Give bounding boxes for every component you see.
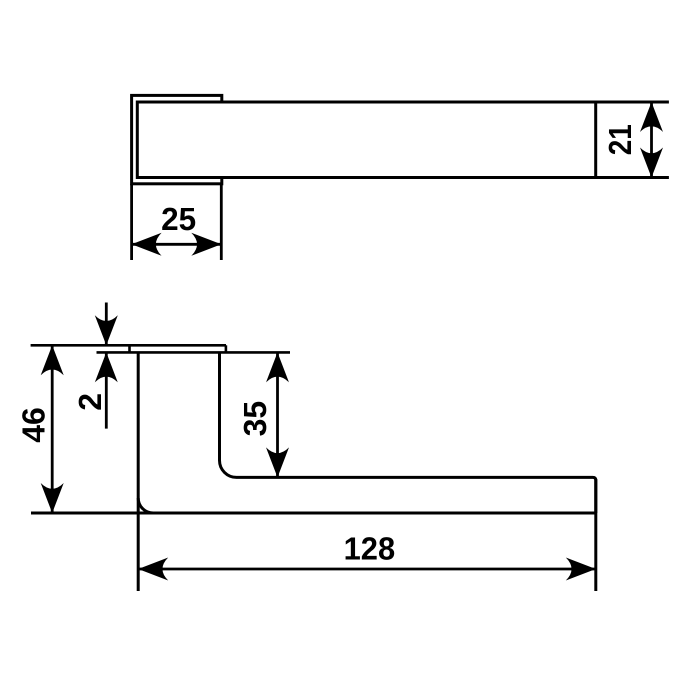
handle neck and lever profile (side view) bbox=[220, 352, 596, 513]
dimension arrowhead 128 left bbox=[138, 558, 168, 581]
lever bottom edge with 46 extension line bbox=[31, 512, 596, 515]
dimension arrow 128 shaft bbox=[138, 568, 596, 571]
rose plate (side view) bottom line with extension bbox=[97, 351, 291, 354]
leader line below for dim 2 bbox=[105, 352, 108, 428]
dimension arrowhead 25 right bbox=[191, 233, 221, 256]
dimension arrow 46 shaft bbox=[51, 345, 54, 513]
dimension arrowhead 46 up bbox=[41, 345, 64, 375]
rose plate (side view) left edge bbox=[128, 345, 131, 352]
extension line top for dim 21 bbox=[596, 101, 669, 104]
dimension arrowhead 46 down bbox=[41, 483, 64, 513]
handle neck left edge with 128 extension line bbox=[137, 352, 140, 591]
extension line bottom for dim 21 bbox=[596, 176, 669, 179]
svg-text:25: 25 bbox=[161, 201, 196, 237]
svg-text:46: 46 bbox=[15, 407, 51, 443]
rose plate (side view) right edge bbox=[225, 345, 228, 352]
extension line right for dim 128 bbox=[594, 479, 597, 591]
dimension arrow 21 shaft bbox=[650, 102, 653, 178]
extension line left for dim 25 bbox=[130, 184, 133, 260]
svg-text:35: 35 bbox=[237, 401, 273, 437]
leader line above for dim 2 bbox=[105, 303, 108, 346]
neck bottom-left arc bbox=[138, 498, 153, 513]
dimension arrowhead 128 right bbox=[566, 558, 596, 581]
dimension arrowhead 25 left bbox=[132, 233, 162, 256]
rose plate (side view) top line with extension bbox=[31, 344, 226, 347]
dimension arrowhead 2 down (above plate) bbox=[95, 315, 118, 345]
rose plate outline (top view) bbox=[132, 95, 222, 183]
dimension arrowhead 2 up (below plate) bbox=[95, 352, 118, 382]
dimension arrowhead 21 up bbox=[640, 102, 663, 132]
svg-text:21: 21 bbox=[602, 124, 638, 155]
lever bar (top view) bbox=[137, 102, 595, 178]
dimension arrow 25 shaft bbox=[132, 243, 222, 246]
dimension arrowhead 35 up bbox=[266, 352, 289, 382]
svg-text:2: 2 bbox=[72, 393, 108, 411]
dimension arrowhead 21 down bbox=[640, 148, 663, 178]
svg-text:128: 128 bbox=[344, 531, 396, 567]
dimension arrow 35 shaft bbox=[276, 352, 279, 477]
extension line right for dim 25 bbox=[220, 184, 223, 260]
dimension arrowhead 35 down bbox=[266, 447, 289, 477]
